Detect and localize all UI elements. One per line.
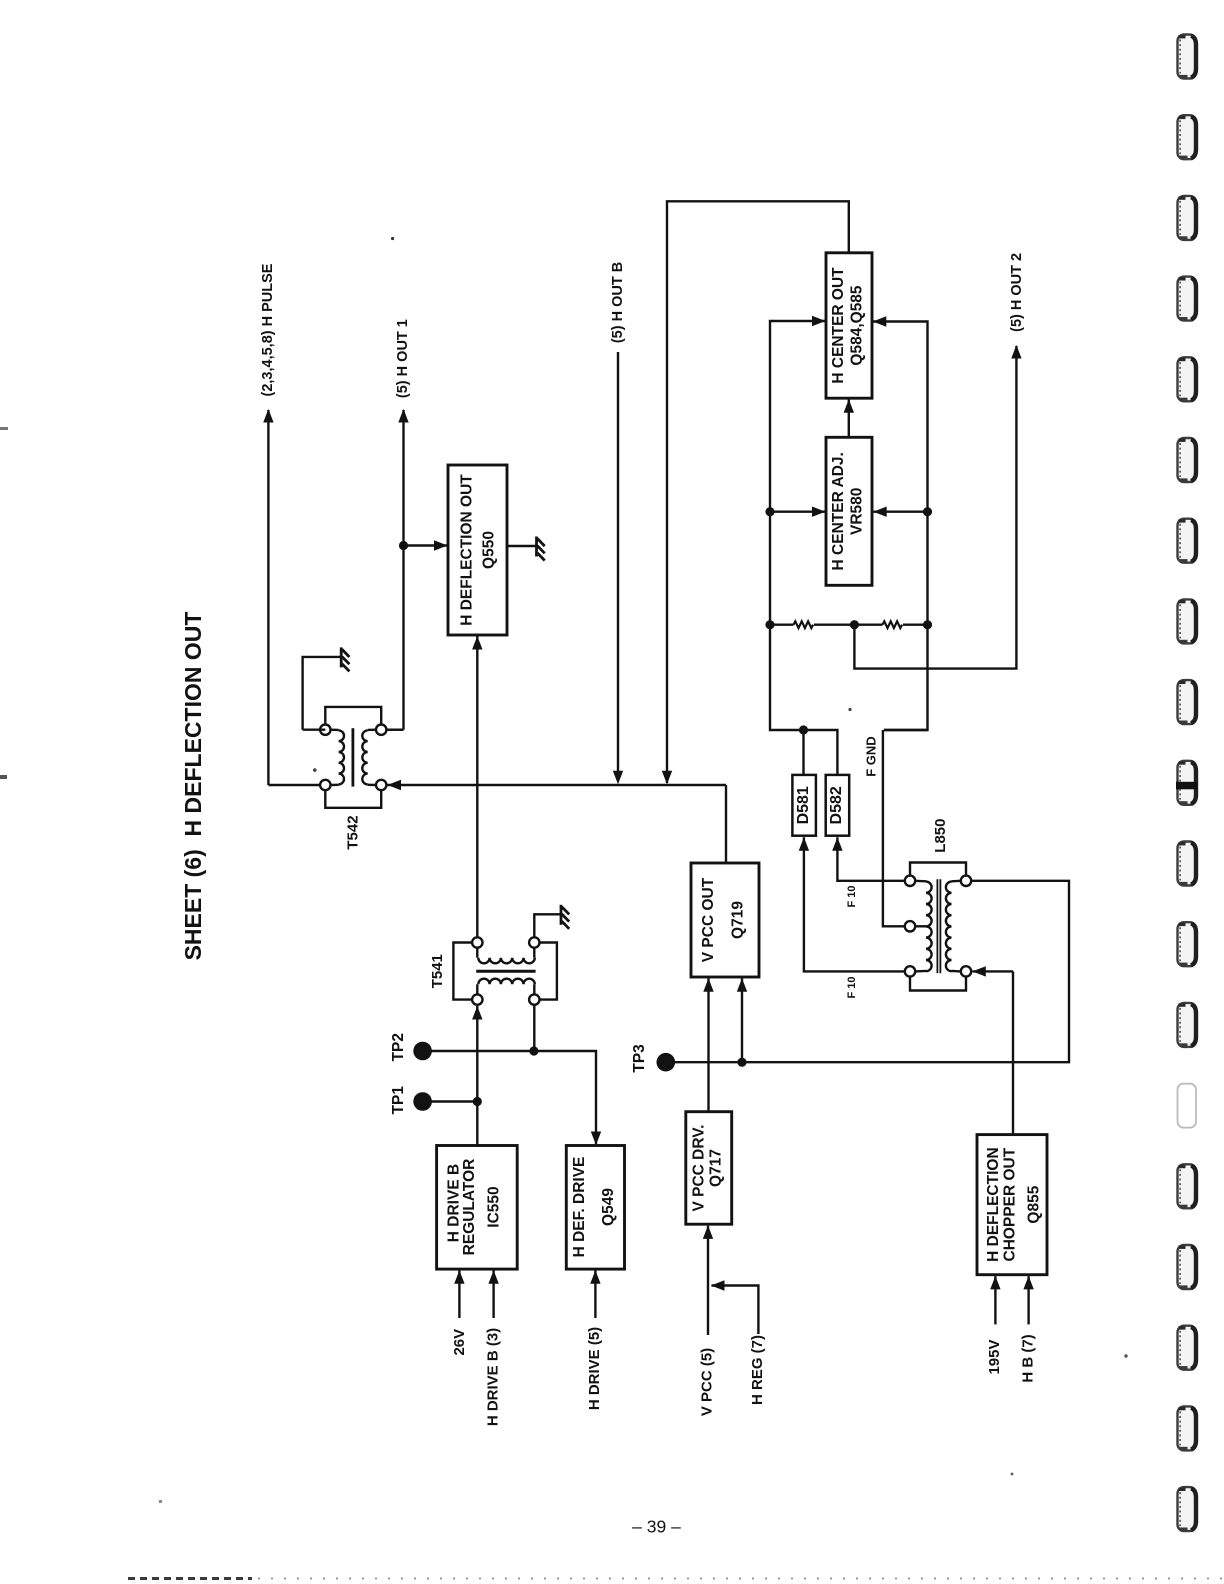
- svg-text:D581: D581: [795, 786, 812, 824]
- svg-text:H DRIVE (5): H DRIVE (5): [586, 1327, 603, 1410]
- wire TP1 to IC550 line: [423, 1100, 478, 1102]
- wire TP2 to Q549: [423, 1051, 596, 1144]
- node junction right bus / VR580: [923, 507, 932, 516]
- svg-text:(5) H OUT 1: (5) H OUT 1: [395, 319, 411, 398]
- svg-text:H DEF. DRIVE: H DEF. DRIVE: [571, 1157, 588, 1258]
- wire right bus: [873, 322, 928, 731]
- transformer T541: [453, 937, 557, 1005]
- svg-text:V PCC (5): V PCC (5): [699, 1348, 716, 1416]
- wire main H line (to T542): [388, 784, 727, 786]
- wire Q717 out to Q719: [707, 979, 709, 1112]
- wire left bus: [770, 321, 826, 730]
- label L850: [932, 818, 949, 852]
- label T541: [429, 954, 446, 988]
- label F 10 lower: [846, 976, 858, 998]
- block H CENTER OUT Q584,Q585: [826, 253, 872, 398]
- wire D582 bottom to L850: [837, 837, 904, 881]
- wire to D581 top: [802, 730, 804, 775]
- transformer T542: [320, 707, 386, 808]
- svg-text:D582: D582: [828, 786, 845, 824]
- svg-text:(5) H OUT B: (5) H OUT B: [610, 262, 626, 343]
- binding holes column: [1178, 35, 1197, 79]
- svg-text:H DEFLECTION OUT: H DEFLECTION OUT: [459, 474, 476, 626]
- node junction to Q719: [737, 1058, 746, 1067]
- wire T542 top-right to H OUT 1 line: [386, 729, 403, 731]
- svg-text:(2,3,4,5,8) H PULSE: (2,3,4,5,8) H PULSE: [260, 263, 276, 396]
- block H DEFLECTION OUT Q550: [448, 465, 507, 635]
- svg-text:V PCC OUT: V PCC OUT: [700, 877, 717, 962]
- label F GND: [864, 736, 879, 776]
- wire T542 secondary top to H OUT 1 line: [386, 729, 403, 731]
- diode D581: [792, 775, 816, 836]
- block H DEF. DRIVE Q549: [566, 1146, 624, 1270]
- wire T542 primary top to ground: [303, 657, 341, 730]
- ground at T541: [560, 905, 563, 925]
- svg-text:H DRIVE B (3): H DRIVE B (3): [484, 1328, 501, 1426]
- node junction H OUT 1 / Q550: [399, 541, 408, 550]
- net H OUT 2 label: [1009, 253, 1025, 332]
- input 195V: [994, 1276, 996, 1324]
- svg-text:Q719: Q719: [729, 901, 746, 939]
- svg-text:TP2: TP2: [390, 1033, 407, 1061]
- label T542: [345, 815, 362, 849]
- input H DRIVE (5): [594, 1271, 596, 1319]
- svg-text:Q855: Q855: [1026, 1185, 1043, 1223]
- svg-text:Q584,Q585: Q584,Q585: [849, 285, 866, 366]
- svg-text:H DEFLECTION: H DEFLECTION: [985, 1147, 1002, 1262]
- input V PCC (5): [707, 1226, 709, 1335]
- wire junction to VR580 right: [874, 511, 928, 513]
- wire F GND to L850 center tap: [884, 729, 928, 731]
- wire T541 bottom-right down: [533, 1005, 535, 1051]
- svg-text:F 10: F 10: [846, 976, 858, 998]
- diode D582: [826, 775, 850, 836]
- node junction left bus / resistor row: [765, 620, 774, 629]
- ground at Q550: [535, 537, 538, 557]
- svg-text:H DRIVE B: H DRIVE B: [446, 1164, 463, 1242]
- bottom edge dotted line: [128, 1577, 252, 1580]
- ground at T542: [340, 647, 343, 667]
- label F 10 upper: [846, 885, 858, 907]
- svg-text:IC550: IC550: [486, 1186, 503, 1227]
- wire top loop from H CENTER OUT: [667, 201, 849, 783]
- resistor left: [770, 624, 794, 626]
- node junction left bus / VR580: [765, 507, 774, 516]
- input H B (7): [1027, 1276, 1029, 1324]
- node junction TP1: [473, 1097, 482, 1106]
- net H PULSE output arrow: [260, 263, 276, 396]
- svg-text:L850: L850: [932, 818, 949, 852]
- svg-text:(5) H OUT 2: (5) H OUT 2: [1009, 253, 1025, 332]
- transformer L850: [905, 863, 971, 991]
- svg-text:TP3: TP3: [631, 1044, 648, 1073]
- wire Q550 to ground: [507, 545, 536, 547]
- svg-text:Q549: Q549: [600, 1188, 617, 1226]
- wire TP3 net: [666, 881, 1069, 1062]
- wire junction to VR580: [770, 511, 825, 513]
- net H OUT 1 output arrow: [395, 319, 411, 398]
- block H CENTER ADJ. VR580: [826, 437, 872, 585]
- block H DRIVE B REGULATOR IC550: [437, 1146, 518, 1270]
- svg-text:VR580: VR580: [849, 488, 866, 535]
- wire T541 top-right to ground: [534, 914, 560, 937]
- node junction above D581: [799, 725, 808, 734]
- wire L850 out to Q855: [1012, 971, 1014, 1134]
- wire H PULSE to T542: [268, 784, 319, 786]
- test point TP2: [390, 1033, 407, 1061]
- svg-text:H B (7): H B (7): [1019, 1334, 1036, 1382]
- wire VR580 to H CENTER OUT: [848, 400, 850, 438]
- svg-text:SHEET (6) H DEFLECTION OUT: SHEET (6) H DEFLECTION OUT: [180, 612, 206, 961]
- wire middle junction to H OUT 2: [854, 346, 1016, 669]
- test point TP1: [390, 1086, 407, 1115]
- net H OUT B line: [610, 262, 626, 343]
- svg-text:V PCC DRV.: V PCC DRV.: [691, 1124, 708, 1211]
- node junction right bus / resistor row: [923, 620, 932, 629]
- svg-text:REGULATOR: REGULATOR: [461, 1159, 478, 1256]
- wire Q550 drive input from T541: [476, 636, 478, 937]
- wire from IC550 up into T541: [476, 1006, 478, 1146]
- svg-text:F 10: F 10: [846, 885, 858, 907]
- svg-text:CHOPPER OUT: CHOPPER OUT: [1002, 1147, 1019, 1261]
- svg-text:F GND: F GND: [864, 736, 879, 776]
- wire main H line down to V PCC OUT: [725, 785, 727, 863]
- svg-text:TP1: TP1: [390, 1086, 407, 1115]
- wire junction to Q550 input: [404, 544, 448, 546]
- svg-text:H CENTER OUT: H CENTER OUT: [830, 267, 847, 384]
- test point TP3: [631, 1044, 648, 1073]
- svg-text:H REG (7): H REG (7): [749, 1335, 766, 1405]
- title SHEET (6) H DEFLECTION OUT: [180, 612, 206, 961]
- node junction middle of resistor row: [850, 620, 859, 629]
- input 26V: [458, 1271, 460, 1319]
- svg-text:Q550: Q550: [481, 531, 498, 569]
- wire to D582 top: [804, 730, 838, 775]
- svg-text:T542: T542: [345, 815, 362, 849]
- block H DEFLECTION CHOPPER OUT Q855: [977, 1135, 1047, 1275]
- input H DRIVE B (3): [492, 1271, 494, 1319]
- wire junction up to Q719: [741, 979, 743, 1063]
- svg-text:T541: T541: [429, 954, 446, 988]
- stray specks: [391, 237, 394, 240]
- svg-text:195V: 195V: [986, 1339, 1003, 1374]
- block V PCC DRV. Q717: [686, 1112, 732, 1225]
- svg-text:H CENTER ADJ.: H CENTER ADJ.: [830, 452, 847, 570]
- input H REG (7): [712, 1286, 759, 1335]
- svg-text:26V: 26V: [451, 1329, 468, 1356]
- svg-text:– 39 –: – 39 –: [632, 1517, 681, 1537]
- block V PCC OUT Q719: [691, 863, 759, 977]
- svg-text:Q717: Q717: [708, 1149, 725, 1187]
- wire D581 bottom to L850: [804, 837, 905, 971]
- resistor right: [854, 624, 882, 626]
- node junction below T541: [529, 1046, 538, 1055]
